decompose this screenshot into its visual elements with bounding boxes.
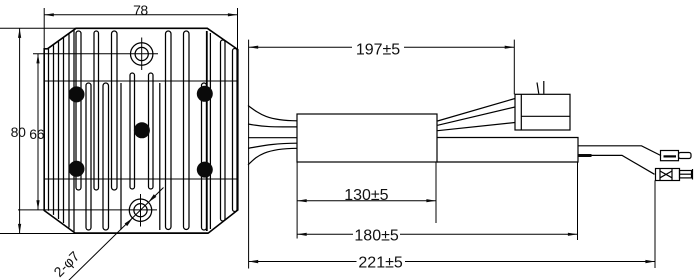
svg-text:66: 66 [29,126,44,142]
svg-text:197±5: 197±5 [356,42,400,59]
svg-text:130±5: 130±5 [344,187,388,204]
svg-text:180±5: 180±5 [354,227,398,244]
svg-text:78: 78 [133,2,148,18]
svg-text:80: 80 [11,124,26,140]
svg-text:221±5: 221±5 [358,255,402,272]
